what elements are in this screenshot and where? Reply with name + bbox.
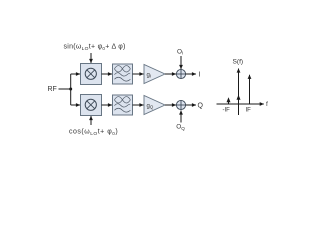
wire OQ to adder Q [180, 111, 182, 123]
svg-text:-IF: -IF [223, 108, 231, 114]
filter I (low-pass) [113, 64, 133, 84]
wire amp Q to adder Q [165, 104, 176, 106]
svg-text:I: I [199, 72, 201, 79]
spectrum DC spike [237, 95, 241, 100]
svg-text:OQ: OQ [176, 124, 185, 131]
spectrum f axis [217, 103, 264, 105]
wire to mixer Q [71, 104, 80, 106]
amplifier gQ [144, 96, 165, 115]
wire adder Q output [186, 104, 196, 106]
adder Q [176, 100, 185, 109]
wire OI to adder I [180, 56, 182, 69]
spectrum signal spike at IF [249, 75, 251, 104]
wire filter Q to amp Q [133, 104, 144, 106]
spectrum S(f) axis [238, 69, 240, 116]
wire RF input [59, 88, 71, 90]
wire RF split vertical [70, 74, 72, 105]
wire filter I to amp I [133, 73, 144, 75]
amplifier gI [144, 65, 165, 84]
wire mixer Q to filter Q [102, 104, 113, 106]
wire to mixer I [71, 73, 80, 75]
svg-text:sin(ωLOt+ φ0+ Δ φ): sin(ωLOt+ φ0+ Δ φ) [64, 44, 126, 52]
wire amp I to adder I [165, 73, 176, 75]
mixer I [81, 64, 102, 85]
mixer Q [81, 95, 102, 116]
svg-text:gI: gI [147, 73, 152, 79]
svg-text:cos(ωLOt+ φ0): cos(ωLOt+ φ0) [69, 129, 118, 137]
svg-text:gQ: gQ [147, 104, 154, 110]
svg-text:S(f): S(f) [233, 59, 244, 66]
spectrum image spike at -IF [227, 97, 231, 104]
filter Q (low-pass) [113, 95, 133, 115]
svg-text:f: f [266, 101, 268, 108]
svg-text:Q: Q [198, 103, 204, 110]
node RF junction [69, 88, 72, 91]
adder I [176, 69, 185, 78]
svg-text:OI: OI [177, 48, 183, 55]
svg-text:IF: IF [246, 108, 252, 114]
wire sin to mixer I [90, 53, 92, 63]
svg-text:RF: RF [48, 86, 57, 93]
wire cos to mixer Q [90, 116, 92, 125]
wire mixer I to filter I [102, 73, 113, 75]
wire adder I output [186, 73, 196, 75]
